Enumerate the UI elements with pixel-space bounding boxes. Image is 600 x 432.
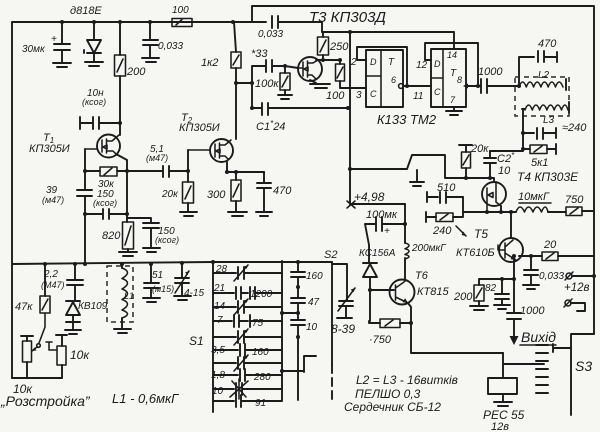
svg-text:820: 820 — [102, 230, 121, 242]
svg-text:100к: 100к — [255, 78, 279, 90]
svg-text:21: 21 — [213, 283, 225, 294]
svg-text:75: 75 — [252, 318, 264, 329]
svg-text:C: C — [434, 87, 441, 97]
inductor 200мкГ choke — [404, 204, 406, 243]
resistor 750 (T6 emitter) — [369, 321, 411, 323]
resistor 1к2 — [234, 22, 236, 52]
svg-text:750: 750 — [565, 194, 584, 206]
switch S2 line — [331, 262, 333, 365]
svg-text:КП305И: КП305И — [29, 143, 70, 155]
svg-text:1000: 1000 — [478, 66, 503, 78]
svg-text:D: D — [434, 59, 441, 69]
svg-text:100мк: 100мк — [366, 209, 398, 221]
trimmer row (band 3,5) — [213, 357, 282, 369]
svg-text:47: 47 — [308, 297, 320, 308]
resistor 100к — [284, 66, 286, 73]
transistor T2 КП305И — [210, 139, 233, 162]
capacitor 0,033 (first) — [142, 22, 159, 62]
resistor 100 (to pin 3) — [336, 64, 345, 81]
svg-text:1200: 1200 — [250, 289, 273, 300]
diode КВ109 varicap — [65, 301, 81, 334]
capacitor 0,033 (emitter bypass) — [529, 254, 533, 258]
svg-text:200: 200 — [453, 291, 473, 303]
svg-text:C: C — [370, 89, 377, 99]
wire T1 drain to 200 resistor — [119, 76, 121, 135]
svg-text:L2 = L3 - 16витків: L2 = L3 - 16витків — [356, 373, 458, 387]
capacitor 150 (ксог) second — [127, 218, 160, 252]
inductor L1 — [107, 266, 133, 322]
svg-text:РЕС 55: РЕС 55 — [483, 408, 525, 422]
svg-text:240: 240 — [432, 225, 452, 237]
wire +4,98 branch to T4 drain — [350, 155, 494, 182]
svg-text:д818Е: д818Е — [70, 5, 102, 17]
svg-text:3: 3 — [356, 90, 362, 101]
band 3,5 capacitor row 160 — [213, 344, 282, 356]
svg-text:Т6: Т6 — [415, 270, 429, 282]
svg-text:(ксог): (ксог) — [93, 198, 117, 208]
svg-text:КТ815: КТ815 — [417, 286, 449, 298]
svg-text:КВ109: КВ109 — [78, 301, 108, 312]
svg-text:(ксог): (ксог) — [82, 97, 106, 107]
svg-text:4-15: 4-15 — [184, 288, 204, 299]
svg-text:0,033: 0,033 — [258, 29, 283, 40]
band 28 trimmer row — [213, 267, 282, 279]
capacitor 470 (over L2) — [519, 51, 557, 86]
svg-text:(ксог): (ксог) — [155, 235, 179, 245]
wire T2 source node — [227, 162, 264, 172]
band 21 capacitor row 1200 — [213, 287, 282, 299]
svg-text:250: 250 — [329, 41, 349, 53]
svg-text:S3: S3 — [575, 358, 592, 374]
capacitor 39 (м47) — [77, 190, 92, 264]
svg-text:30мк: 30мк — [22, 44, 46, 55]
resistor 750 (output) — [566, 207, 582, 216]
svg-text:470: 470 — [273, 185, 292, 197]
wire U1b D-feedback loop — [425, 43, 478, 86]
wire T1 source down — [116, 154, 127, 222]
svg-text:ПЕЛШО 0,3: ПЕЛШО 0,3 — [355, 387, 421, 401]
transistor T4 КП303Е — [482, 182, 506, 206]
svg-text:Т5: Т5 — [474, 227, 488, 241]
resistor 200 (output divider) — [470, 279, 514, 310]
svg-text:2: 2 — [350, 57, 357, 68]
svg-text:Т: Т — [388, 57, 395, 68]
wire L3/5к1 node to C2 — [490, 109, 523, 151]
wire supply rail to top edge — [252, 6, 594, 334]
transistor T1 КП305И — [97, 135, 120, 158]
flip-flop U1b (К133ТМ2 half 2) — [431, 49, 466, 107]
resistor 250 — [322, 32, 324, 37]
connector pin +12в — [566, 273, 572, 279]
potentiometer 10к (right) — [56, 335, 67, 346]
svg-text:100: 100 — [172, 5, 189, 16]
transistor T3 КП303Д — [298, 57, 322, 81]
wire U1a D-feedback loop — [357, 47, 407, 84]
svg-text:470: 470 — [538, 38, 557, 50]
wire U1b pin8 output — [466, 85, 481, 87]
svg-text:20: 20 — [543, 239, 557, 251]
resistor 20 — [542, 252, 558, 261]
resistor 20к (T2 gate) — [187, 150, 189, 182]
svg-text:160: 160 — [252, 347, 269, 358]
capacitor row 91 — [213, 395, 282, 407]
capacitor 1000 (coupling to L2) — [481, 79, 519, 93]
svg-text:КТ610Б: КТ610Б — [456, 247, 495, 259]
svg-text:+: + — [51, 34, 57, 45]
svg-text:Сердечник СБ-12: Сердечник СБ-12 — [344, 400, 441, 414]
svg-text:S2: S2 — [324, 249, 337, 261]
switch S1 left bus — [212, 262, 214, 412]
svg-text:КС156А: КС156А — [359, 248, 396, 259]
wire bottom return — [12, 377, 62, 379]
switch S1 right bus — [281, 261, 283, 400]
svg-text:6: 6 — [391, 75, 396, 85]
flip-flop U1a (К133ТМ2 half 1) — [366, 50, 403, 107]
svg-text:8: 8 — [457, 75, 462, 85]
wire T4 source/gate row — [463, 206, 516, 212]
capacitor 2,2 (М47) — [67, 264, 83, 300]
wire right rail bottom to S3 — [571, 334, 594, 415]
band 1,8 capacitor row 280 — [213, 369, 282, 381]
diode д818Е zener — [84, 22, 103, 66]
band 10 trimmer row — [213, 383, 282, 395]
svg-text:(м47): (м47) — [146, 153, 168, 163]
wire T5 emitter output row — [519, 255, 594, 257]
wire to T3 gate — [285, 66, 298, 68]
svg-text:160: 160 — [306, 271, 323, 282]
wire T3 drain node — [316, 59, 340, 61]
resistor 30к — [83, 169, 87, 173]
svg-text:47к: 47к — [15, 301, 33, 313]
capacitor 30мк electrolytic — [53, 22, 71, 67]
resistor 240 — [426, 197, 463, 222]
svg-text:КП305И: КП305И — [179, 122, 220, 134]
svg-text:11: 11 — [413, 91, 423, 102]
svg-text:91: 91 — [255, 398, 266, 409]
svg-text:(м47): (м47) — [42, 195, 64, 205]
svg-text:·750: ·750 — [369, 334, 392, 346]
capacitor 0,033 (supply decoupling near T3) — [252, 16, 322, 32]
svg-text:14: 14 — [447, 50, 457, 60]
relay РЕС55 — [503, 353, 544, 378]
ground U1b pin7 — [446, 107, 462, 115]
wire +4,98 supply vertical — [349, 32, 351, 204]
potentiometer Розстройка (left) — [21, 336, 33, 341]
svg-text:L1 - 0,6мкГ: L1 - 0,6мкГ — [112, 391, 179, 406]
svg-text:+: + — [384, 226, 390, 237]
inductor L3 — [522, 108, 525, 110]
svg-text:Вихід: Вихід — [521, 329, 556, 345]
svg-text:300: 300 — [207, 189, 226, 201]
wire 1к2 to T2 drain — [235, 68, 237, 139]
svg-text:10: 10 — [306, 322, 318, 333]
capacitor chain 160/47/10 (S2 divider) — [291, 262, 305, 400]
svg-text:20к: 20к — [470, 143, 489, 155]
ground T3 source — [310, 80, 330, 88]
svg-text:200: 200 — [126, 66, 146, 78]
svg-text:1,8: 1,8 — [211, 370, 225, 381]
svg-text:+4,98: +4,98 — [354, 190, 385, 204]
node +4,98 test point — [347, 201, 355, 208]
svg-text:28: 28 — [215, 264, 228, 275]
resistor 820 — [123, 222, 134, 249]
capacitor 470 (T2 source bypass) — [256, 172, 272, 216]
node junction dots on top rail — [60, 20, 64, 24]
wire output node vertical — [512, 254, 516, 258]
diode КС156А zener — [363, 245, 377, 321]
resistor 100 (top) — [172, 19, 192, 27]
capacitor 510 — [427, 192, 463, 203]
svg-text:*33: *33 — [251, 48, 268, 60]
svg-text:Т: Т — [450, 68, 457, 79]
svg-text:510: 510 — [437, 182, 456, 194]
svg-text:10: 10 — [498, 165, 511, 177]
capacitor 150 (ксог) feedback — [83, 212, 87, 216]
band 7 capacitor row 75 — [213, 315, 282, 327]
capacitor 8-39 variable — [332, 264, 353, 318]
svg-text:L2: L2 — [538, 70, 550, 81]
wire main supply rail top-left — [12, 22, 252, 378]
wire main bottom bus — [12, 262, 332, 264]
svg-text:0,033: 0,033 — [158, 41, 183, 52]
switch S3 contact arm — [553, 344, 571, 352]
svg-text:1000: 1000 — [520, 305, 545, 317]
ground (tap near T4) — [410, 170, 424, 186]
resistor 300 — [231, 180, 241, 201]
connector pin (second) — [565, 300, 571, 306]
svg-text:10к: 10к — [70, 348, 90, 362]
resistor 200 — [119, 22, 121, 55]
relay contact stack S3 dashes — [536, 345, 548, 393]
wire 47к to potentiometer wiper — [39, 313, 45, 343]
transistor T5 КТ610Б — [510, 212, 512, 238]
svg-text:Т4 КП303Е: Т4 КП303Е — [517, 170, 579, 184]
wire T1 gate line down — [84, 149, 86, 190]
capacitor 10н (ксог) — [80, 117, 120, 129]
svg-text:82: 82 — [485, 283, 497, 294]
svg-text:280: 280 — [253, 372, 271, 383]
svg-text:7: 7 — [217, 315, 223, 326]
capacitor ≈240 — [523, 128, 556, 139]
capacitor 5,1 (м47) — [127, 166, 188, 177]
svg-text:12: 12 — [416, 60, 428, 71]
svg-text:≈240: ≈240 — [562, 122, 587, 134]
svg-text:8-39: 8-39 — [331, 322, 355, 336]
svg-text:14: 14 — [214, 301, 226, 312]
transistor T6 КТ815 — [370, 289, 394, 291]
capacitor С2* 10 — [484, 151, 496, 178]
capacitor С1*24 — [252, 103, 348, 115]
inductor L2 — [519, 82, 563, 87]
capacitor *33 — [252, 60, 285, 108]
band 14 trimmer row — [213, 301, 282, 313]
wire T6 emitter to relay — [408, 303, 503, 353]
svg-text:Т3 КП303Д: Т3 КП303Д — [309, 9, 386, 26]
wire supply rail y32 to flip-flops — [322, 32, 454, 49]
svg-text:1к2: 1к2 — [201, 57, 218, 69]
capacitor 4-15 trimmer — [174, 263, 191, 300]
svg-text:D: D — [370, 57, 377, 67]
wire S2 divider taps — [282, 313, 316, 372]
svg-text:0,033: 0,033 — [539, 271, 564, 282]
capacitor 82 — [500, 277, 504, 281]
svg-text:S1: S1 — [189, 334, 204, 348]
resistor 5к1 — [523, 144, 556, 154]
svg-text:51: 51 — [152, 270, 163, 281]
svg-text:К133 ТМ2: К133 ТМ2 — [377, 112, 437, 127]
trimmer row (band 7) — [213, 331, 282, 343]
svg-text:12в: 12в — [491, 421, 509, 432]
svg-text:„Розстройка”: „Розстройка” — [0, 393, 91, 409]
wire to *33 column — [236, 82, 252, 84]
svg-text:+12в: +12в — [564, 282, 590, 294]
svg-text:10: 10 — [212, 386, 224, 397]
svg-text:100: 100 — [326, 90, 345, 102]
capacitor 51 (м15) — [143, 264, 160, 302]
wire U1a pin6 to U1b pin11 — [404, 85, 431, 87]
svg-text:3,5: 3,5 — [211, 345, 225, 356]
capacitor 1000 (output coupling) — [507, 313, 521, 337]
svg-text:L1: L1 — [124, 291, 134, 301]
svg-text:(м15): (м15) — [152, 284, 174, 294]
svg-text:10мкГ: 10мкГ — [518, 191, 550, 203]
svg-text:200мкГ: 200мкГ — [411, 243, 447, 254]
capacitor 100мк electrolytic — [365, 217, 405, 245]
svg-text:5к1: 5к1 — [531, 157, 548, 169]
resistor 47к — [44, 264, 46, 296]
resistor 20к (T4 drain bias) — [459, 145, 472, 178]
svg-text:20к: 20к — [161, 189, 179, 200]
transformer coupling dashed box L2-L3 — [515, 77, 569, 116]
